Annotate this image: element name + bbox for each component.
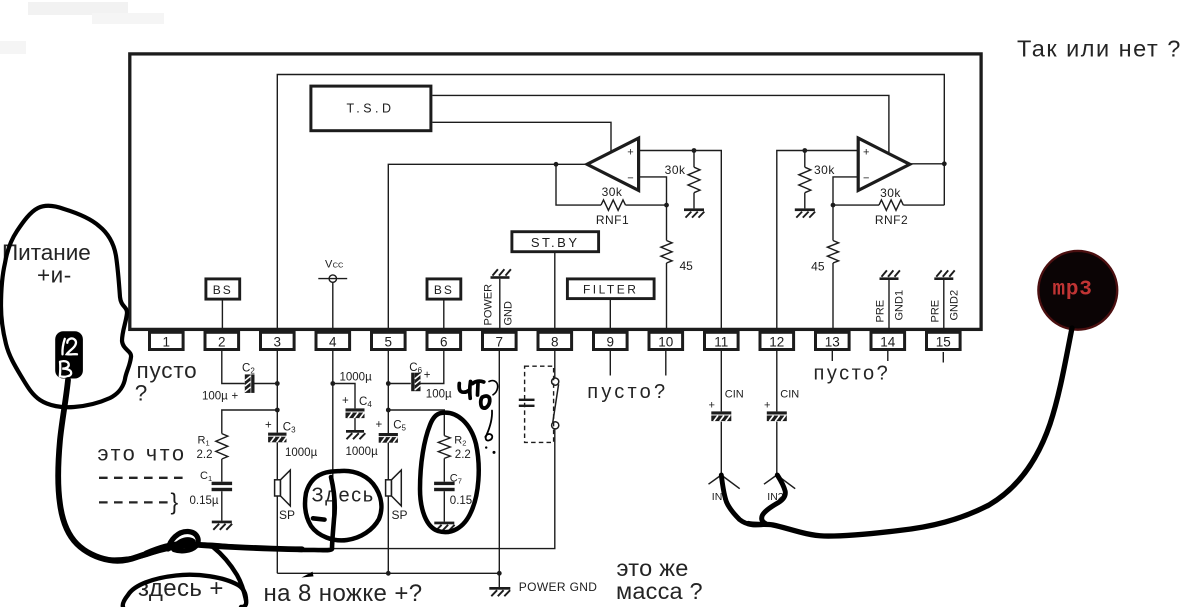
svg-text:Питание: Питание [2, 240, 91, 265]
svg-text:3: 3 [274, 335, 282, 350]
pin 14 [871, 332, 905, 349]
wire: left amp non-inverting input to pin 11 [639, 151, 722, 330]
svg-text:45: 45 [680, 259, 694, 273]
svg-text:пусто: пусто [137, 358, 198, 383]
wire: left output to RNF1 [556, 164, 601, 205]
supply rail from pin 8 switch (upper rail) [264, 429, 555, 549]
ground (C4) [346, 430, 364, 433]
op-amp U2 right power amp [858, 138, 910, 190]
IC body outline [130, 54, 981, 330]
capacitor C7 0.15u [434, 482, 455, 485]
wire: pin 12 input column [776, 351, 778, 412]
svg-text:+: + [424, 369, 431, 381]
pin 12 [760, 332, 794, 349]
node: SP2 rail junction [386, 571, 391, 576]
wire: pin 5 column [387, 351, 389, 433]
svg-text:+: + [232, 390, 239, 402]
hand-drawn overlap stroke on supply wire [104, 545, 262, 560]
capacitor C4 1000u supply decoupling [346, 408, 365, 411]
hand-drawn thick supply wire from battery [58, 380, 302, 561]
svg-text:100µ: 100µ [202, 391, 228, 403]
svg-text:0.15µ: 0.15µ [190, 495, 219, 507]
pin 13 [816, 332, 850, 349]
svg-text:ST.BY: ST.BY [531, 235, 580, 250]
pin 1 [150, 332, 184, 349]
svg-text:7: 7 [496, 335, 504, 350]
node: 30k input divider junction right [802, 148, 807, 153]
wire: R2 Zobel branch [388, 410, 444, 436]
wire: pin 2 to C2 [222, 351, 245, 384]
resistor R1 2.2 [216, 434, 228, 459]
svg-text:SP: SP [279, 508, 295, 522]
svg-text:GND: GND [503, 301, 515, 326]
capacitor C2 100u bootstrap [251, 374, 254, 393]
pin 7 [483, 332, 517, 349]
svg-text:6: 6 [440, 335, 448, 350]
svg-text:mp3: mp3 [1053, 278, 1093, 301]
wire: pin 11 input column [720, 351, 722, 412]
ground rail (lower) [277, 572, 499, 574]
node: right output junction [942, 161, 947, 166]
handwritten что + hook [459, 382, 470, 399]
svg-text:POWER GND: POWER GND [519, 580, 597, 594]
svg-text:45: 45 [811, 260, 825, 274]
wire: T.S.D to left amp control [432, 122, 611, 151]
svg-text:+: + [627, 146, 633, 158]
block BS (pin 2) [206, 279, 240, 299]
svg-text:POWER: POWER [483, 284, 495, 326]
wire: pin 15 stub [942, 352, 944, 363]
svg-text:4: 4 [329, 335, 337, 350]
wire: to C4 [333, 384, 355, 409]
node: R2 branch junction on pin 5 [386, 408, 391, 413]
wire: pin 9 stub [609, 351, 611, 376]
wire: pin 7 column to power ground [498, 351, 500, 573]
capacitor CIN right [767, 411, 787, 414]
svg-text:PRE: PRE [875, 300, 887, 323]
hand-drawn blob around Питание [1, 206, 131, 407]
svg-text:RNF2: RNF2 [875, 213, 908, 227]
op-amp U1 left power amp [587, 138, 639, 190]
resistor 30k left input to ground [693, 151, 695, 168]
svg-text:8: 8 [551, 335, 559, 350]
svg-text:1000µ: 1000µ [285, 447, 318, 459]
svg-text:на 8 ножке +?: на 8 ножке +? [264, 580, 423, 607]
wire: pin 13 stub [831, 351, 833, 361]
input jack IN2 [764, 475, 777, 484]
svg-text:+: + [265, 419, 272, 431]
wire: right amp non-inverting input to pin 12 [777, 151, 858, 330]
svg-text:−: − [863, 172, 869, 184]
svg-text:BS: BS [213, 283, 233, 297]
svg-text:RNF1: RNF1 [596, 213, 629, 227]
pin 10 [649, 332, 683, 349]
capacitor C5 1000u output coupling [379, 433, 398, 436]
svg-text:}: } [171, 489, 179, 515]
svg-text:0.15: 0.15 [450, 495, 472, 507]
hand-drawn ellipse around здесь + [123, 575, 246, 607]
svg-text:15: 15 [936, 335, 951, 350]
pin 6 [427, 332, 461, 349]
svg-text:FILTER: FILTER [583, 283, 638, 297]
12V battery badge [55, 331, 83, 378]
svg-text:2.2: 2.2 [455, 449, 471, 461]
svg-text:+: + [342, 395, 349, 407]
hand-drawn ellipse around R2/C7 [420, 413, 479, 533]
svg-text:30k: 30k [665, 163, 686, 177]
svg-text:SP: SP [392, 508, 408, 522]
svg-text:−: − [627, 172, 633, 184]
node: C4 branch [330, 381, 335, 386]
speaker SP left [275, 480, 281, 496]
block FILTER [567, 279, 654, 299]
svg-text:GND1: GND1 [894, 290, 906, 321]
svg-text:30k: 30k [880, 186, 901, 200]
input jack IN1 [709, 475, 722, 484]
svg-text:1000µ: 1000µ [346, 446, 379, 458]
svg-text:это что: это что [98, 441, 187, 465]
svg-text:+: + [863, 146, 869, 158]
T.S.D block U2 [311, 86, 431, 131]
svg-text:1000µ: 1000µ [340, 372, 373, 384]
svg-text:это же: это же [617, 555, 689, 581]
wire: Zobel branch to R1 [222, 410, 277, 434]
mp3 player blob [1038, 251, 1117, 330]
capacitor C3 1000u output coupling [268, 433, 286, 436]
node: RNF1 / 45 junction [664, 203, 669, 208]
relay coil capacitor mark [519, 399, 535, 401]
wire: pin 8 to standby switch [554, 351, 556, 378]
pin 8 [538, 332, 572, 349]
svg-text:2.2: 2.2 [197, 449, 213, 461]
svg-text:30k: 30k [814, 163, 835, 177]
hand-drawn tick on ground rail [302, 572, 314, 578]
svg-text:9: 9 [607, 335, 615, 350]
annotation: dashed pointer lines [99, 477, 183, 479]
wire: pin 4 (Vcc) column down to supply rail [332, 351, 334, 549]
svg-text:14: 14 [880, 335, 896, 350]
wire: pin3 output loop to right amp output (top) [277, 75, 944, 330]
wire: pin 14 stub [887, 351, 889, 361]
svg-text:?: ? [135, 381, 148, 406]
dashed relay outline [525, 366, 554, 442]
node: C6 wire junction on pin 5 [386, 381, 391, 386]
hand-drawn dash in blob [313, 518, 325, 519]
block ST.BY [512, 232, 599, 252]
wire: left amp output to pin 5 [388, 164, 587, 329]
POWER GND internal terminal (pin 7) [491, 276, 510, 279]
svg-text:5: 5 [385, 335, 393, 350]
wire: C6 bridge pin5 to pin6 [388, 383, 411, 385]
svg-text:100µ: 100µ [426, 388, 452, 400]
svg-text:10: 10 [658, 335, 673, 350]
svg-text:Так или нет ?: Так или нет ? [1017, 35, 1182, 61]
wire: pin 10 stub [665, 351, 667, 376]
svg-text:T.S.D: T.S.D [346, 102, 394, 116]
hand-drawn branch down to здесь blob [213, 547, 246, 600]
PRE GND2 terminal (pin 15) [934, 277, 953, 280]
node: 30k input divider junction left [692, 148, 697, 153]
svg-text:пусто?: пусто? [587, 381, 668, 403]
resistor 30k right input to ground [804, 151, 806, 168]
node: RNF2 / 45 junction [831, 203, 836, 208]
PRE GND1 terminal (pin 14) [880, 277, 899, 280]
wire: to power gnd symbol [498, 573, 500, 587]
standby switch S1 [552, 378, 559, 385]
svg-text:12: 12 [769, 335, 784, 350]
ground (right 30k) [795, 208, 815, 211]
capacitor CIN left [711, 411, 731, 414]
wire: ST.BY to pin 8 [554, 252, 556, 329]
svg-text:+: + [764, 399, 770, 411]
wire: right amp inverting input [833, 177, 858, 205]
pin 11 [705, 332, 739, 349]
svg-text:BS: BS [434, 283, 454, 297]
svg-text:+и-: +и- [37, 263, 72, 288]
node: power gnd junction [497, 571, 502, 576]
svg-text:13: 13 [825, 335, 840, 350]
svg-text:CIN: CIN [780, 389, 799, 401]
resistor R2 2.2 [438, 436, 450, 459]
faint smudges top-left [28, 2, 128, 15]
svg-text:CIN: CIN [725, 389, 744, 401]
hand-drawn circle around Здесь (pin4 rail node) [305, 471, 381, 540]
node: left output junction [554, 162, 559, 167]
svg-text:Здесь: Здесь [312, 485, 375, 507]
pin 4 [316, 332, 350, 349]
resistor RNF1 30k [601, 200, 626, 210]
wire: pin 3 column [276, 351, 278, 433]
svg-text:+: + [376, 419, 383, 431]
svg-text:11: 11 [714, 335, 728, 350]
pin 5 [372, 332, 406, 349]
svg-text:+: + [709, 399, 715, 411]
speaker SP right [386, 480, 392, 496]
hand-drawn cable loop at inputs [762, 475, 786, 524]
node: pin3/C2 junction [275, 381, 280, 386]
svg-text:CC: CC [333, 260, 344, 269]
hand-drawn stroke over pin4 wire [295, 477, 335, 550]
pin 9 [594, 332, 628, 349]
resistor 45 (left) to pin 10 [666, 205, 668, 240]
wire: T.S.D to right amp control [432, 95, 889, 152]
resistor 45 (right) to pin 13 [832, 205, 834, 240]
pin 3 [261, 332, 295, 349]
pin 15 [927, 332, 961, 349]
capacitor C6 100u bootstrap [411, 373, 414, 392]
node: R1 branch junction on pin3 [275, 408, 280, 413]
wire: left amp inverting input [639, 177, 667, 205]
ground (C7) [434, 522, 454, 525]
wire: right amp output [910, 163, 945, 165]
ground (left 30k) [684, 208, 704, 211]
capacitor C1 0.15u [212, 482, 233, 485]
ground (C1) [212, 521, 232, 524]
svg-text:GND2: GND2 [949, 290, 961, 321]
hand-drawn mp3 cable [748, 328, 1072, 536]
ground POWER GND [489, 587, 510, 590]
svg-text:PRE: PRE [930, 300, 942, 323]
pin 2 [205, 332, 239, 349]
wire: FILTER to pin 9 [609, 299, 611, 329]
svg-text:1: 1 [163, 335, 171, 350]
svg-text:масса ?: масса ? [616, 578, 703, 604]
svg-text:2: 2 [218, 335, 226, 350]
hand-drawn knot on wire [168, 531, 198, 550]
svg-text:30k: 30k [602, 185, 623, 199]
block BS (pin 6) [427, 279, 461, 299]
resistor RNF2 30k [833, 204, 879, 206]
svg-text:пусто?: пусто? [814, 363, 891, 385]
